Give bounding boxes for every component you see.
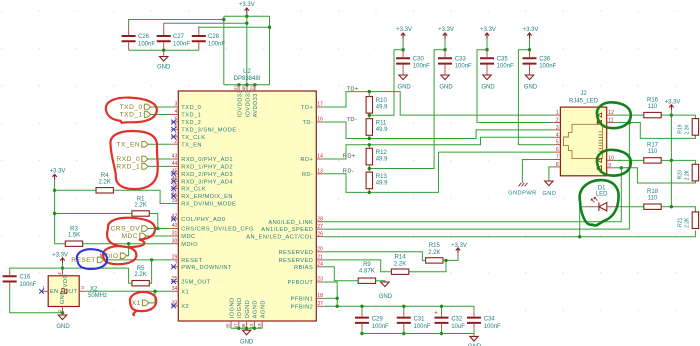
svg-text:+: + [434, 311, 438, 317]
svg-text:48: 48 [242, 85, 247, 91]
svg-text:44: 44 [172, 161, 178, 167]
svg-text:5: 5 [556, 140, 559, 146]
hierarchical label RXD_1 [116, 164, 148, 171]
junction C29 bottom [360, 332, 363, 335]
svg-text:R18: R18 [647, 189, 659, 195]
svg-text:2: 2 [175, 139, 178, 145]
svg-text:18: 18 [317, 293, 323, 299]
junction R10/R11 mid [368, 114, 371, 117]
svg-text:GND: GND [157, 65, 171, 71]
svg-text:14: 14 [317, 154, 323, 160]
svg-text:2.2K: 2.2K [134, 203, 146, 209]
hierarchical label MDIO [99, 253, 126, 260]
wire C28 top rail to chip [199, 26, 270, 28]
wire +3.3V to junction [62, 263, 64, 268]
wire pin 9 to R20 bottom [621, 168, 695, 183]
resistor R5 [132, 266, 149, 286]
ground (pin 8) [542, 181, 556, 197]
wire RXD_1 to pin 44 [148, 165, 171, 167]
svg-text:GND: GND [240, 340, 254, 346]
wire C36 to RJ45 pin 5 [518, 50, 553, 145]
junction C31 bottom [402, 332, 405, 335]
wire TX_EN to pin 2 [148, 143, 171, 145]
svg-text:COL/PHY_AD0: COL/PHY_AD0 [181, 217, 225, 223]
wire TXD_1 to pin 4 [151, 114, 172, 116]
svg-text:10uF: 10uF [451, 324, 465, 330]
svg-text:TXD_2: TXD_2 [181, 120, 201, 126]
wire pin 24 RBIAS to R9 [323, 267, 358, 281]
svg-text:RXD_0/PHY_AD1: RXD_0/PHY_AD1 [181, 157, 233, 163]
junction R14/R15 [444, 259, 447, 262]
svg-text:TXD_0: TXD_0 [181, 105, 201, 111]
svg-text:R1: R1 [137, 196, 145, 202]
svg-text:2.2K: 2.2K [685, 169, 691, 180]
svg-text:25M_OUT: 25M_OUT [181, 280, 210, 286]
svg-text:49.9: 49.9 [376, 127, 388, 133]
svg-text:43: 43 [172, 154, 178, 160]
svg-text:R5: R5 [137, 266, 145, 272]
resistor R15 [426, 243, 443, 263]
wire LED cathode to AN_EN net [580, 207, 585, 237]
power +3.3V (top) [239, 2, 255, 13]
svg-text:RD-: RD- [302, 172, 313, 178]
wire AN_EN/LED_ACT net [323, 230, 695, 236]
svg-text:41: 41 [172, 191, 178, 197]
ground GNDPWR [508, 181, 537, 197]
ground (cap rail) [468, 334, 482, 346]
pin 23 PFBOUT [288, 277, 324, 286]
svg-text:28: 28 [317, 216, 323, 222]
wire CRS_DV to pin 40 [148, 228, 171, 230]
wire C16 top to +3.3V node [10, 268, 63, 271]
junction rail R18 [670, 205, 673, 208]
wire AN1/LED_SPEED net [323, 123, 629, 230]
svg-text:+3.3V: +3.3V [523, 27, 539, 33]
power +3.3V (oscillator) [52, 252, 68, 263]
svg-text:110: 110 [648, 149, 658, 155]
wire pin 21 to R14 [323, 260, 391, 272]
pin 29 RESET [171, 255, 202, 264]
resistor R14 [391, 254, 408, 274]
pin 34 X1 [171, 286, 189, 295]
wire pin 12 to R16 [614, 114, 644, 116]
junction rail R4 [53, 189, 56, 192]
pin 13 RD- [302, 169, 323, 178]
pin 36 DGND (bottom) [241, 300, 251, 329]
svg-text:TD-: TD- [302, 120, 313, 126]
svg-text:22: 22 [250, 85, 255, 91]
svg-text:R19: R19 [677, 124, 683, 133]
junction pin 9 [620, 166, 623, 169]
wire +3.3V to C30 [402, 39, 404, 50]
svg-text:19: 19 [257, 323, 262, 329]
svg-text:6: 6 [556, 147, 559, 153]
wire pin 10 to R17 [614, 159, 644, 161]
svg-text:40: 40 [172, 223, 178, 229]
LED marks inside J2 (pins 12/11) [597, 113, 601, 125]
capacitor C29 [355, 306, 389, 333]
svg-text:C36: C36 [539, 57, 551, 63]
svg-text:100nF: 100nF [539, 63, 556, 69]
pin 19 AGND (bottom) [257, 300, 267, 328]
wire R5 to RESET [149, 260, 151, 283]
junction chip power pins [237, 83, 240, 86]
capacitor C31 [397, 306, 431, 333]
capacitor C16 [3, 271, 37, 288]
svg-text:35: 35 [226, 323, 231, 329]
pin 4 TXD_1 [171, 109, 201, 118]
svg-text:49.9: 49.9 [376, 180, 388, 186]
wire R4 to pin 39 [113, 190, 171, 203]
resistor R20 [677, 164, 698, 181]
svg-text:4: 4 [556, 132, 559, 138]
annotation blue circle RESET [77, 249, 107, 269]
capacitor C35 [480, 50, 514, 75]
wire MDIO label riser [127, 244, 129, 256]
resistor R9 [358, 262, 375, 284]
svg-text:42: 42 [172, 214, 178, 220]
wire AN0/LED_LINK net [323, 168, 621, 222]
svg-text:25: 25 [172, 276, 178, 282]
wire R17 to +3.3V rail [661, 159, 671, 161]
junction pin 11 [628, 121, 631, 124]
svg-text:38: 38 [172, 183, 178, 189]
svg-text:RXD_2/PHY_AD3: RXD_2/PHY_AD3 [181, 172, 233, 178]
wire +3.3V to R1 [55, 213, 132, 215]
svg-text:PFBOUT: PFBOUT [288, 280, 314, 286]
wire R1 to CRS_DV [149, 214, 158, 229]
junction LED cathode [578, 235, 581, 238]
resistor R16 [644, 97, 661, 118]
pin 42 COL/PHY_AD0 [171, 214, 225, 223]
svg-text:3: 3 [556, 125, 559, 131]
resistor R10 [366, 97, 388, 114]
svg-text:AGND: AGND [253, 300, 259, 318]
svg-text:2.2K: 2.2K [428, 250, 440, 256]
wire pin 7 to GNDPWR [522, 160, 553, 181]
pin 39 RX_DV/MII_MODE [171, 198, 236, 207]
pin 8 (J2) [553, 162, 560, 168]
wire right power drop [269, 16, 271, 85]
wire C27 top rail to chip [164, 23, 247, 26]
wire +3.3V feed vertical [246, 14, 248, 85]
svg-text:11: 11 [608, 118, 613, 124]
junction R12/R13 mid [368, 167, 371, 170]
capacitor C34 [467, 311, 501, 330]
wire pin 8 to GND [549, 167, 554, 181]
pin 11 (J2) [607, 118, 614, 124]
svg-text:RX_DV/MII_MODE: RX_DV/MII_MODE [181, 202, 236, 208]
svg-text:CRS_DV: CRS_DV [110, 226, 140, 233]
svg-text:29: 29 [172, 255, 178, 261]
svg-text:1.5K: 1.5K [68, 233, 80, 239]
svg-text:X2: X2 [181, 304, 189, 310]
svg-text:2.2K: 2.2K [685, 217, 691, 228]
svg-text:GND: GND [379, 294, 393, 300]
capacitor C28 [192, 26, 226, 50]
svg-text:GND: GND [481, 85, 495, 91]
annotation green circle J2 pins 10/9 [597, 150, 631, 176]
svg-text:IOGND: IOGND [229, 297, 235, 318]
svg-text:+3.3V: +3.3V [50, 169, 66, 175]
svg-text:3: 3 [81, 285, 84, 290]
LED marks inside J2 (pins 10/9) [597, 158, 601, 170]
resistor R4 [96, 173, 113, 193]
annotation red circle CRS_DV/MDC [107, 218, 155, 247]
LED D1 [585, 185, 622, 211]
svg-text:TXD_1: TXD_1 [120, 112, 143, 119]
svg-text:GND: GND [542, 191, 556, 197]
svg-text:CRS/CRS_DV/LED_CFG: CRS/CRS_DV/LED_CFG [181, 227, 254, 233]
pin 7 (J2) [553, 155, 560, 161]
svg-text:C35: C35 [497, 57, 509, 63]
wire cap ground rail [362, 333, 474, 335]
ground below C27 [129, 49, 199, 71]
wire RXD_0 to pin 43 [148, 158, 171, 160]
svg-text:TXD_3/SNI_MODE: TXD_3/SNI_MODE [181, 128, 236, 134]
wire R15 to +3.3V [443, 253, 458, 260]
annotation green circle J2 pins 12/11 [597, 102, 631, 128]
svg-text:EN: EN [50, 289, 59, 295]
junction R5 on RESET [150, 258, 153, 261]
hierarchical label X1 [132, 300, 149, 307]
ground below C33 [439, 75, 453, 91]
wire pin 9 to junction [614, 167, 622, 169]
capacitor C26 [122, 26, 156, 50]
wire TXD_0 to pin 3 [151, 106, 172, 108]
junction C35 top [485, 48, 488, 51]
svg-text:RESET: RESET [181, 258, 202, 264]
svg-text:C32: C32 [451, 317, 463, 323]
svg-text:PFBIN1: PFBIN1 [291, 296, 314, 302]
power +3.3V (C30) [396, 27, 412, 38]
svg-text:MDC: MDC [181, 234, 195, 240]
wire R14 to +3.3V [409, 260, 446, 271]
wire rail to R19 top [671, 115, 695, 119]
wire PFBIN2 cap rail [323, 306, 474, 311]
svg-text:32: 32 [234, 85, 239, 91]
svg-text:2.2K: 2.2K [394, 261, 406, 267]
power +3.3V (right) [665, 99, 681, 110]
wire MDC to pin 31 [146, 235, 171, 237]
svg-text:IOVDD33: IOVDD33 [245, 90, 251, 117]
wire top bus rail [224, 15, 270, 17]
junction rail R1 [53, 212, 56, 215]
svg-text:RXD_1: RXD_1 [116, 164, 140, 171]
pin 46 RXD_3/PHY_AD4 [171, 176, 233, 185]
svg-text:100nF: 100nF [19, 282, 36, 288]
annotation green circle LED D1 [580, 180, 619, 225]
hierarchical label CRS_DV [110, 226, 148, 233]
crystal oscillator X2 50MHz [48, 274, 79, 306]
svg-text:4: 4 [175, 109, 178, 115]
svg-text:4: 4 [57, 272, 62, 275]
svg-text:RESERVED: RESERVED [279, 250, 314, 256]
wire TD centre tap [369, 50, 403, 116]
svg-text:12: 12 [608, 110, 614, 116]
wire R18 to +3.3V rail [661, 206, 671, 208]
pin 47 IOGND (bottom) [233, 297, 243, 328]
annotation red circle TXD_0/TXD_1 [106, 98, 157, 123]
wire chip power header [224, 84, 270, 86]
capacitor C27 [157, 26, 191, 50]
resistor R1 [132, 196, 149, 216]
svg-text:GND: GND [60, 290, 66, 304]
capacitor C33 [438, 50, 472, 75]
annotation red circle X1 [130, 292, 156, 315]
junction C30 top [401, 48, 404, 51]
svg-text:RBIAS: RBIAS [294, 265, 313, 271]
svg-text:PFBIN2: PFBIN2 [291, 304, 314, 310]
svg-text:26: 26 [317, 231, 323, 237]
svg-text:AN1/LED_SPEED: AN1/LED_SPEED [261, 227, 313, 233]
pin 41 RX_ER/MDIX_EN [171, 191, 233, 200]
wire +3.3V to C33 [444, 39, 446, 50]
svg-text:R15: R15 [429, 243, 441, 249]
svg-text:9: 9 [608, 163, 611, 169]
wire +3.3V to R5 [63, 268, 132, 283]
svg-text:1: 1 [556, 110, 559, 116]
svg-text:C26: C26 [138, 34, 150, 40]
wire C34 bottom link [473, 329, 475, 334]
wire +3.3V rail [670, 110, 672, 206]
svg-text:J2: J2 [580, 91, 587, 97]
svg-text:50MHz: 50MHz [88, 293, 107, 299]
junction PFBIN1 [336, 297, 339, 300]
resistor R17 [644, 143, 661, 163]
junction ground pins [237, 327, 240, 330]
wire TD+ net [323, 92, 553, 116]
pin 32 IOVDD33 (top) [234, 85, 244, 118]
power +3.3V (C36) [523, 27, 539, 38]
junction rail R17 [670, 159, 673, 162]
pin 15 AGND (bottom) [249, 300, 259, 328]
wire X1 label riser [149, 291, 155, 303]
svg-text:RXD_3/PHY_AD4: RXD_3/PHY_AD4 [181, 179, 233, 185]
svg-text:R11: R11 [376, 120, 387, 126]
wire R3 to pin 30 MDIO [83, 243, 172, 245]
wire RD- net [323, 152, 553, 192]
svg-text:2.2K: 2.2K [685, 124, 691, 135]
op-amp U2 DP83848I body [178, 69, 316, 321]
svg-text:MDIO: MDIO [181, 242, 198, 248]
resistor R3 [65, 227, 82, 247]
wire rail to R21 top [671, 207, 695, 212]
pin 27 AN1/LED_SPEED [261, 224, 323, 233]
svg-text:R20: R20 [677, 170, 683, 179]
svg-text:100nF: 100nF [208, 41, 225, 47]
svg-text:IOGND: IOGND [237, 297, 243, 318]
svg-text:DGND: DGND [245, 300, 251, 319]
ground below C35 [481, 75, 495, 91]
svg-text:100nF: 100nF [414, 324, 431, 330]
svg-text:2: 2 [556, 118, 559, 124]
svg-text:7: 7 [556, 155, 559, 161]
power +3.3V (C35) [480, 27, 496, 38]
pin 22 AVDD33 (top) [250, 85, 260, 118]
svg-text:PWR_DOWN/INT: PWR_DOWN/INT [181, 265, 232, 271]
svg-text:RX_ER/MDIX_EN: RX_ER/MDIX_EN [181, 194, 233, 200]
svg-text:4.87K: 4.87K [359, 269, 375, 275]
svg-text:49.9: 49.9 [376, 105, 388, 111]
svg-text:VDD: VDD [63, 274, 69, 287]
svg-text:C29: C29 [372, 317, 384, 323]
junction C29 top [360, 305, 363, 308]
svg-text:U2: U2 [243, 69, 251, 75]
svg-text:+3.3V: +3.3V [396, 27, 412, 33]
svg-text:100nF: 100nF [484, 324, 501, 330]
svg-text:100nF: 100nF [372, 324, 389, 330]
svg-text:3: 3 [175, 102, 178, 108]
pin 17 TD+ [301, 102, 323, 111]
junction R11 bottom [368, 137, 371, 140]
ground below C30 [397, 75, 411, 91]
pin 31 MDC [171, 231, 195, 240]
capacitor C36 [523, 50, 557, 75]
svg-text:R4: R4 [101, 173, 109, 179]
pin 25 25M_OUT [171, 276, 211, 285]
hierarchical label RESET [71, 257, 103, 264]
hierarchical label TXD_0 [120, 104, 151, 111]
pin 44 RXD_1/PHY_AD2 [171, 161, 233, 170]
svg-text:RX_CLK: RX_CLK [181, 187, 206, 193]
wire pin 11 to R19 bottom [629, 123, 695, 139]
junction R13 bottom [368, 191, 371, 194]
power +3.3V (C33) [438, 27, 454, 38]
svg-text:AN0/LED_LINK: AN0/LED_LINK [268, 220, 313, 226]
junction rail dots [222, 18, 225, 21]
svg-text:110: 110 [648, 104, 658, 110]
svg-text:R12: R12 [376, 150, 388, 156]
svg-text:LED: LED [596, 191, 608, 197]
pin 1 (J2) [553, 110, 560, 116]
svg-text:R9: R9 [363, 262, 371, 268]
pin 14 RD+ [300, 154, 323, 163]
svg-text:AN_EN/LED_ACT/COL: AN_EN/LED_ACT/COL [246, 235, 313, 241]
svg-text:TX_CLK: TX_CLK [181, 135, 205, 141]
pin 37 PFBIN2 [291, 301, 324, 310]
ground below chip [240, 330, 254, 345]
pin 6 (J2) [553, 147, 560, 153]
svg-text:2.2K: 2.2K [134, 272, 146, 278]
svg-text:R3: R3 [70, 227, 78, 233]
svg-text:R16: R16 [647, 97, 659, 103]
hierarchical label MDC [122, 233, 146, 240]
junction osc GND node [61, 311, 64, 314]
svg-text:39: 39 [172, 198, 178, 204]
junction C32 top [440, 305, 443, 308]
pin 16 TD- [302, 117, 323, 126]
pin 20 RESERVED [279, 247, 324, 256]
junction X1 label [153, 290, 156, 293]
junction osc VDD node [61, 266, 64, 269]
svg-text:27: 27 [317, 224, 323, 230]
pin 10 (J2) [607, 155, 614, 161]
wire left power drop [223, 16, 225, 85]
svg-text:TX_EN: TX_EN [181, 142, 202, 148]
wire C35 to RJ45 pin 2 [477, 50, 553, 123]
resistor pin stubs R10-R13 [368, 92, 370, 193]
pin 7 PWR_DOWN/INT [171, 262, 232, 271]
wire R9 to GND [376, 281, 385, 282]
hierarchical label RXD_0 [116, 156, 148, 163]
pin 33 X2 [171, 301, 189, 310]
svg-text:21: 21 [317, 255, 323, 261]
wire osc OUT to pin 34 X1 [86, 290, 171, 292]
svg-text:13: 13 [317, 169, 323, 175]
wire PFBIN1 [323, 297, 337, 299]
svg-text:C27: C27 [173, 34, 185, 40]
